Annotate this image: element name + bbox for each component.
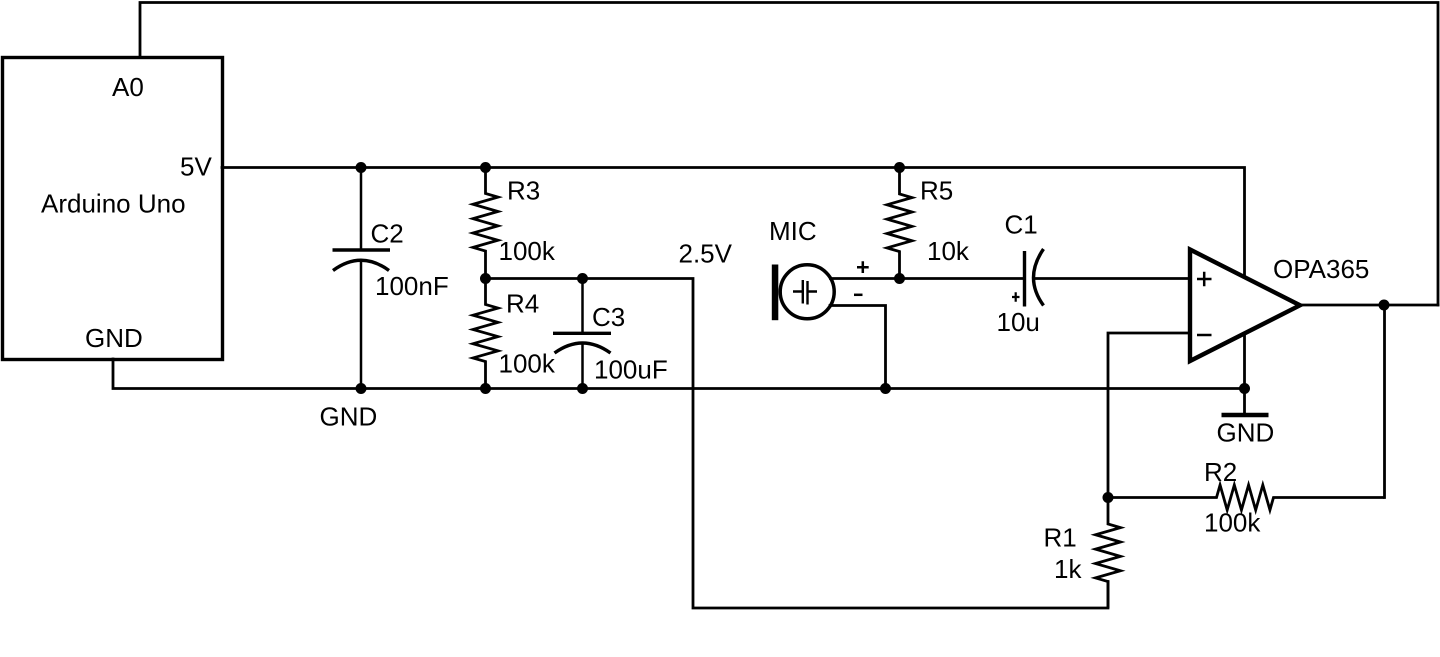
- wire C1 to op-amp non-inverting input: [1036, 277, 1190, 280]
- resistor R5: [887, 168, 912, 279]
- junction C2 top on 5V rail: [356, 162, 367, 173]
- junction C3 bottom on GND rail: [577, 383, 588, 394]
- resistor R3: [473, 168, 498, 279]
- capacitor C1 (polarized): [1012, 249, 1044, 307]
- svg-text:R5: R5: [920, 176, 953, 206]
- junction R3 top on 5V rail: [480, 162, 491, 173]
- junction R3/R4 2.5V node: [480, 273, 491, 284]
- wire mic plus output to C1: [831, 277, 1025, 280]
- svg-text:R1: R1: [1044, 523, 1077, 553]
- junction op-amp V- on GND rail: [1239, 383, 1250, 394]
- label R3: [507, 176, 540, 206]
- label mic plus terminal: [857, 261, 869, 273]
- svg-text:R3: R3: [507, 176, 540, 206]
- svg-text:5V: 5V: [180, 152, 212, 182]
- wire GND rail from Arduino GND pin: [113, 359, 1245, 389]
- svg-text:Arduino Uno: Arduino Uno: [41, 189, 186, 219]
- label 2.5V node: [679, 239, 733, 269]
- wire op-amp inverting input from feedback node: [1108, 333, 1190, 498]
- junction feedback node R1/R2: [1103, 492, 1114, 503]
- label OPA365: [1273, 254, 1369, 284]
- wire GND symbol stub: [1243, 389, 1246, 415]
- label R1 value 1k: [1054, 554, 1082, 584]
- junction R5 bottom / mic plus: [894, 273, 905, 284]
- label C1: [1005, 210, 1038, 240]
- label MIC: [769, 216, 817, 246]
- label R3 value 100k: [499, 236, 556, 266]
- wire 2.5V net: R3/R4 junction right, down, along bottom to R1: [486, 279, 1109, 609]
- svg-text:100uF: 100uF: [594, 355, 668, 385]
- label R2: [1204, 457, 1237, 487]
- svg-text:10k: 10k: [927, 236, 970, 266]
- svg-text:100k: 100k: [1204, 508, 1261, 538]
- wire A0 net: Arduino A0 pin up, across top, down right side to op-amp output: [140, 3, 1438, 306]
- Arduino Uno module U1: [3, 58, 223, 360]
- svg-text:R4: R4: [506, 289, 539, 319]
- label R4: [506, 289, 539, 319]
- wire 5V rail from Arduino 5V pin to op-amp V+: [222, 168, 1245, 276]
- resistor R4: [473, 279, 498, 389]
- junction C3 top on 2.5V net: [577, 273, 588, 284]
- wire mic minus to ground rail: [830, 306, 886, 389]
- label R5 value 10k: [927, 236, 970, 266]
- label R4 value 100k: [499, 349, 556, 379]
- label R1: [1044, 523, 1077, 553]
- microphone MIC: [772, 265, 834, 321]
- junction output node: [1379, 300, 1390, 311]
- op-amp U1 OPA365: [1190, 250, 1300, 362]
- svg-text:100k: 100k: [499, 349, 556, 379]
- svg-text:C3: C3: [592, 302, 625, 332]
- label C1 value 10u: [997, 307, 1040, 337]
- svg-text:OPA365: OPA365: [1273, 254, 1369, 284]
- label R2 value 100k: [1204, 508, 1261, 538]
- junction mic minus on GND rail: [880, 383, 891, 394]
- svg-text:GND: GND: [320, 402, 378, 432]
- svg-text:10u: 10u: [997, 307, 1040, 337]
- svg-text:C1: C1: [1005, 210, 1038, 240]
- svg-text:100k: 100k: [499, 236, 556, 266]
- label C2: [371, 219, 404, 249]
- svg-text:1k: 1k: [1054, 554, 1082, 584]
- label C2 value 100nF: [375, 271, 449, 301]
- svg-text:100nF: 100nF: [375, 271, 449, 301]
- resistor R1: [1096, 498, 1121, 609]
- junction C2 bottom on GND rail: [356, 383, 367, 394]
- capacitor C2: [333, 168, 391, 389]
- svg-text:R2: R2: [1204, 457, 1237, 487]
- label mic minus terminal: [854, 294, 863, 297]
- svg-text:C2: C2: [371, 219, 404, 249]
- junction R4 bottom on GND rail: [480, 383, 491, 394]
- wire op-amp output: [1300, 304, 1438, 307]
- label R5: [920, 176, 953, 206]
- svg-text:A0: A0: [112, 72, 144, 102]
- label C3 value 100uF: [594, 355, 668, 385]
- svg-text:2.5V: 2.5V: [679, 239, 733, 269]
- svg-text:GND: GND: [1217, 418, 1275, 448]
- label GND rail: [320, 402, 378, 432]
- svg-text:GND: GND: [85, 323, 143, 353]
- wire op-amp V- pin to ground rail: [1243, 335, 1246, 389]
- capacitor C3: [553, 279, 611, 389]
- svg-text:MIC: MIC: [769, 216, 817, 246]
- ground symbol near op-amp: [1217, 415, 1275, 448]
- wire feedback: R2 right side up to output node: [1383, 305, 1386, 498]
- label C3: [592, 302, 625, 332]
- junction R5 top on 5V rail: [894, 162, 905, 173]
- resistor R2: [1108, 485, 1385, 510]
